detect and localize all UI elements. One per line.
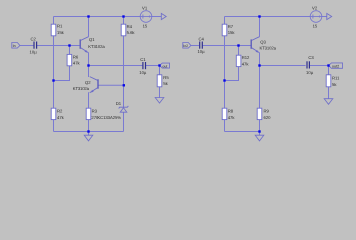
wire: right out row	[260, 65, 306, 67]
resistor R11	[326, 75, 340, 87]
svg-text:10µ: 10µ	[306, 70, 314, 75]
node: R12 top / base row	[237, 44, 239, 46]
wire: R4 to D1 column	[123, 17, 125, 25]
transistor Q2 (mirrored)	[73, 77, 98, 93]
node: Q3 collector / rail	[258, 15, 260, 17]
transistor Q1	[80, 37, 105, 53]
svg-text:15k: 15k	[57, 30, 65, 35]
battery V1	[140, 5, 152, 28]
resistor R7	[222, 24, 235, 36]
svg-text:15: 15	[313, 24, 318, 29]
svg-text:R4: R4	[127, 24, 133, 29]
capacitor C1	[139, 57, 147, 75]
resistor R6	[67, 54, 80, 66]
node: Q2 base / D1	[123, 84, 125, 86]
wire: C2 to Q1 base	[37, 45, 80, 47]
svg-text:Q3: Q3	[260, 39, 266, 44]
svg-text:47k: 47k	[228, 115, 236, 120]
wire: In2 port to C4	[191, 45, 199, 47]
capacitor C3	[306, 55, 314, 75]
wire: right main ground stem	[259, 132, 261, 136]
resistor R5	[157, 75, 169, 87]
svg-text:10µ: 10µ	[139, 70, 147, 75]
wire: V2 to ground stem	[322, 16, 327, 18]
svg-text:10µ: 10µ	[30, 50, 38, 55]
node: R6 top / base row	[68, 44, 70, 46]
svg-text:47k: 47k	[242, 61, 250, 66]
svg-text:Q2: Q2	[85, 80, 91, 85]
wire: Q2 base to D1 node	[99, 84, 124, 86]
wire: left V+ rail	[54, 16, 141, 18]
svg-text:V1: V1	[142, 5, 148, 10]
node: R9 / bottom rail	[258, 130, 260, 132]
ground (under R5)	[155, 98, 164, 104]
svg-text:R12: R12	[242, 55, 250, 60]
wire: right bottom rail	[225, 131, 260, 133]
svg-text:KT3102a: KT3102a	[73, 86, 90, 91]
svg-text:R5: R5	[163, 75, 169, 80]
resistor R9	[257, 108, 271, 120]
capacitor C2	[30, 37, 38, 55]
wire: R11 to ground	[328, 87, 330, 99]
port out2	[329, 63, 343, 69]
svg-text:47k: 47k	[57, 115, 65, 120]
wire: R9 to bottom rail	[259, 120, 261, 132]
node dots	[52, 15, 329, 132]
svg-text:47k: 47k	[73, 61, 81, 66]
svg-text:620: 620	[264, 115, 272, 120]
ground (under R11)	[324, 99, 333, 105]
node: out port / R5	[158, 64, 160, 66]
port In	[12, 43, 20, 49]
svg-text:C1: C1	[140, 57, 146, 62]
svg-text:Q1: Q1	[89, 37, 95, 42]
wire: Q1 emitter / Q2 collector column	[88, 53, 90, 77]
resistor R3	[86, 108, 99, 120]
svg-text:5.6k: 5.6k	[127, 30, 136, 35]
wire: V1 to ground stem	[152, 16, 161, 18]
wire: R5 to ground	[159, 87, 161, 98]
svg-text:R9: R9	[264, 109, 270, 114]
svg-text:C2: C2	[31, 37, 37, 42]
ground (V1 right)	[161, 13, 166, 19]
svg-text:R6: R6	[73, 54, 79, 59]
node: Q1 collector / rail	[87, 15, 89, 17]
svg-text:C4: C4	[199, 36, 205, 41]
wire: right divider column R7-R8	[224, 17, 226, 25]
wire: out node to R5	[159, 66, 161, 75]
zener diode D1	[97, 101, 128, 120]
svg-text:R3: R3	[92, 109, 98, 114]
transistor Q3	[251, 37, 276, 53]
wire: Q1 collector to rail	[88, 17, 90, 37]
svg-text:R1: R1	[57, 24, 63, 29]
svg-text:15: 15	[143, 24, 148, 29]
wire: left bottom rail	[54, 131, 124, 133]
node: R12 bend / divider	[223, 79, 225, 81]
resistor R4	[121, 24, 135, 36]
svg-text:R11: R11	[332, 76, 340, 81]
node: out2 port / R11	[327, 64, 329, 66]
resistor R8	[222, 108, 235, 120]
node: R6 bend / divider	[52, 79, 54, 81]
node: Q3 emitter / out row	[258, 64, 260, 66]
node: R4 / rail	[122, 15, 124, 17]
svg-text:R8: R8	[228, 109, 234, 114]
svg-text:In: In	[13, 44, 16, 48]
svg-text:V2: V2	[312, 5, 318, 10]
svg-text:KT3102a: KT3102a	[88, 44, 105, 49]
wire: R12 column and L-bend to divider	[238, 46, 240, 56]
wire: R6 column and L-bend to divider	[69, 46, 71, 55]
wire: out2 node to R11	[328, 66, 330, 75]
wire: left out row	[89, 65, 143, 67]
svg-text:out: out	[162, 64, 167, 68]
capacitor C4	[197, 36, 205, 54]
svg-text:15k: 15k	[228, 30, 236, 35]
wire: Q3 collector to rail	[259, 17, 261, 37]
svg-text:R7: R7	[228, 24, 234, 29]
wire: out row to R9	[259, 66, 261, 109]
svg-text:10µ: 10µ	[197, 49, 205, 54]
wire: left main ground stem	[88, 132, 90, 136]
wire: C4 to Q3 base	[203, 45, 251, 47]
svg-text:R2: R2	[57, 109, 63, 114]
ground (left main)	[84, 135, 93, 141]
svg-text:out2: out2	[332, 65, 339, 69]
svg-text:KC133A25%: KC133A25%	[97, 115, 121, 120]
ground (V2 right)	[327, 13, 332, 19]
wire: D1 to bottom rail	[123, 112, 125, 131]
svg-text:D1: D1	[116, 101, 122, 106]
resistor R2	[51, 108, 64, 120]
wire: Q3 emitter to out row	[259, 53, 261, 66]
wire: left divider column R1-R2	[53, 17, 55, 25]
ground (right main)	[255, 135, 264, 141]
resistor R12	[236, 55, 250, 66]
svg-text:In2: In2	[183, 44, 188, 48]
resistor R1	[51, 24, 64, 36]
wire: Q2 emitter to R3	[88, 92, 90, 108]
wire: R3 to bottom rail	[88, 120, 90, 132]
port out	[160, 63, 170, 68]
battery V2	[310, 5, 322, 28]
node: Q1 emitter / out row	[87, 64, 89, 66]
wire: right V+ rail	[225, 16, 311, 18]
node: R3 / bottom rail	[87, 130, 89, 132]
svg-text:C3: C3	[308, 55, 314, 60]
svg-text:KT3102a: KT3102a	[260, 46, 277, 51]
port In2	[183, 43, 191, 49]
wire: In port to C2	[20, 45, 34, 47]
